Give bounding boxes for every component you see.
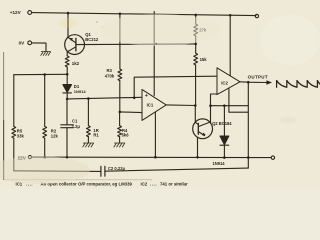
svg-text:R1: R1 xyxy=(93,133,99,138)
resistor R1 xyxy=(87,126,91,137)
node 1k2-D1 xyxy=(66,73,69,76)
wire Q1 base line xyxy=(76,43,196,46)
wire C2 line right xyxy=(105,168,248,171)
wire R1 leg xyxy=(87,99,89,126)
wire sense line xyxy=(67,97,142,99)
capacitor C2 xyxy=(101,166,105,176)
node rail-feedback cross xyxy=(247,156,250,159)
node D1-C1 xyxy=(66,98,69,101)
wire C1 leg xyxy=(66,99,68,125)
resistor 15k xyxy=(194,53,198,65)
wire IC2 V- pin xyxy=(229,88,248,112)
ground xyxy=(83,143,94,147)
wire 1k2 to node xyxy=(66,67,68,74)
wire output feedback right leg xyxy=(247,82,249,168)
svg-text:BC212: BC212 xyxy=(85,37,99,42)
resistor R2 12k xyxy=(43,126,47,138)
node rail-27k xyxy=(194,14,197,17)
wire 15k to IC1 output node xyxy=(195,65,197,105)
wire left leg R5 xyxy=(13,75,15,127)
Q1 emitter arrow xyxy=(70,38,73,41)
svg-text:IC2: IC2 xyxy=(141,181,148,186)
resistor 27k xyxy=(194,24,198,36)
node IC2 output xyxy=(247,81,250,84)
wire IC2 output xyxy=(240,81,267,84)
capacitor C1 xyxy=(61,125,73,128)
svg-text:IC1: IC1 xyxy=(147,103,154,108)
wire top +12V rail xyxy=(32,13,256,16)
sawtooth waveform xyxy=(277,81,320,88)
svg-text:470k: 470k xyxy=(105,74,115,79)
wire IC2 V+ pin xyxy=(229,15,231,76)
resistor R 1k2 xyxy=(65,56,69,67)
node sense branch xyxy=(133,97,136,100)
node base divider xyxy=(194,43,197,46)
ground xyxy=(114,143,125,147)
svg-text:2.2μ: 2.2μ xyxy=(72,124,81,129)
wire D1 to sense node xyxy=(66,93,68,99)
wire node B to IC1 inv input xyxy=(120,111,142,114)
+12V terminal xyxy=(28,11,32,15)
wire R2 leg xyxy=(44,75,46,127)
svg-text:IC2: IC2 xyxy=(221,80,228,85)
transistor Q1 xyxy=(65,35,85,55)
top rail right terminal xyxy=(255,14,258,17)
wire R3 leg from rail xyxy=(119,14,121,69)
wire bottom rail xyxy=(32,156,271,159)
svg-text:1k2: 1k2 xyxy=(72,61,80,66)
wire 27k leg xyxy=(195,15,197,24)
node rail-Q2 xyxy=(196,156,199,159)
wire R3 to node B xyxy=(119,81,121,112)
svg-text:Q2 BC184: Q2 BC184 xyxy=(212,121,232,126)
resistor R5 33k xyxy=(12,126,16,138)
svg-text:....: .... xyxy=(150,181,157,186)
wire branch to IC2 input xyxy=(134,76,217,98)
paper speckles xyxy=(0,14,320,184)
rail right terminal xyxy=(271,156,274,159)
svg-text:+12V: +12V xyxy=(10,10,22,15)
node rail-IC2 xyxy=(229,14,232,17)
node IC1 output xyxy=(194,104,197,107)
wire node B down to R4 xyxy=(119,112,121,126)
Q2 emitter arrow xyxy=(203,133,206,136)
resistor R3 470k xyxy=(118,69,122,81)
svg-text:OUTPUT: OUTPUT xyxy=(248,74,268,79)
wire Q2 collector riser xyxy=(211,94,218,122)
transistor Q2 xyxy=(193,119,213,139)
wire R5 to C2 line xyxy=(13,138,15,171)
wire 0V to ground xyxy=(32,43,46,52)
svg-text:12k: 12k xyxy=(51,134,59,139)
node base-IC1 pin cross xyxy=(155,43,157,45)
node rail-IC1 xyxy=(154,156,157,159)
svg-text:5k6: 5k6 xyxy=(122,133,130,138)
diode D2 xyxy=(223,106,225,136)
wire IC1 V- pin xyxy=(154,112,156,157)
diode D1 xyxy=(66,74,68,84)
wire IC1 out to Q2 base xyxy=(195,106,198,125)
svg-text:0V: 0V xyxy=(19,40,26,45)
12V terminal xyxy=(28,156,31,159)
svg-text:15k: 15k xyxy=(200,57,208,62)
node feedback-D2 xyxy=(223,104,226,107)
svg-text:33k: 33k xyxy=(17,134,25,139)
0V terminal xyxy=(28,41,32,45)
node R2 top xyxy=(43,73,46,76)
ground xyxy=(41,52,51,56)
op-amp IC1 xyxy=(142,89,166,120)
node R3-R4-IC1 xyxy=(119,111,122,114)
svg-text:741 or similar: 741 or similar xyxy=(160,181,188,186)
wire feedback bottom xyxy=(211,105,249,107)
node rail-D2 xyxy=(223,156,226,159)
svg-text:1N914: 1N914 xyxy=(213,161,226,166)
wire C2 line left xyxy=(14,170,101,173)
wire 27k to base node xyxy=(195,36,197,53)
wire R2 to bottom rail xyxy=(44,138,46,157)
output arrowhead xyxy=(266,80,272,84)
svg-text:R3: R3 xyxy=(107,68,113,73)
wire IC1 output xyxy=(166,104,195,107)
node feedback-Q2 xyxy=(209,104,212,107)
node rail-R2 xyxy=(43,156,46,159)
resistor R4 5k6 xyxy=(118,126,122,137)
wire node row xyxy=(14,73,67,75)
op-amp IC2 xyxy=(217,68,240,95)
node rail-C1 xyxy=(66,156,69,159)
node R1 top xyxy=(87,97,90,100)
wire IC1 V+ pin xyxy=(153,12,155,96)
svg-text:1N914: 1N914 xyxy=(74,89,87,94)
svg-text:C2 0.22μ: C2 0.22μ xyxy=(108,166,126,171)
wire Q1 emitter drop xyxy=(67,13,69,37)
node rail-R3 xyxy=(119,13,122,16)
node rail-Q1 xyxy=(67,12,70,15)
